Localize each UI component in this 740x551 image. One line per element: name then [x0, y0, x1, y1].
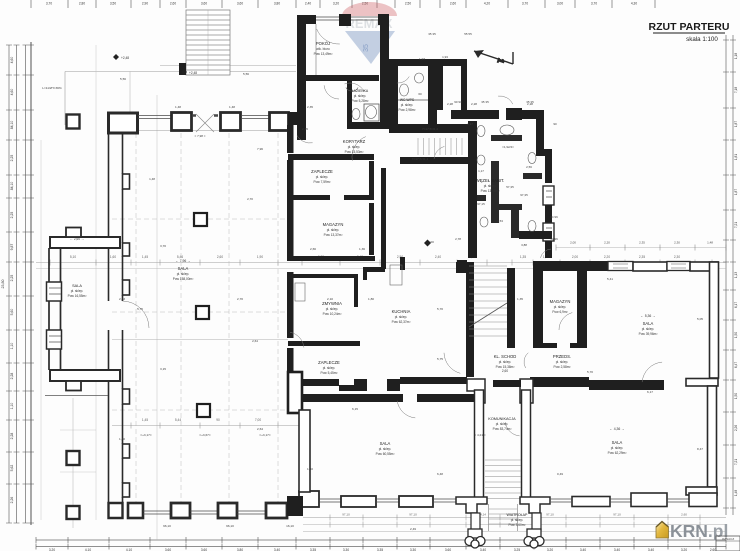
svg-text:7,00: 7,00	[255, 418, 261, 422]
stair treads KL.SCHOD	[469, 265, 507, 267]
svg-text:2,25: 2,25	[10, 212, 14, 219]
svg-text:9,87: 9,87	[10, 244, 14, 251]
svg-text:3,00: 3,00	[557, 2, 563, 6]
svg-text:pl. sklep.: pl. sklep.	[316, 175, 329, 179]
wall south facade left seg2	[399, 496, 433, 507]
svg-text:2,28: 2,28	[527, 102, 533, 106]
svg-text:90: 90	[553, 122, 557, 126]
svg-text:5,70: 5,70	[587, 370, 593, 374]
svg-text:55 55: 55 55	[464, 32, 472, 36]
svg-text:2,60: 2,60	[681, 513, 687, 517]
svg-text:=1,92/4=: =1,92/4=	[502, 145, 514, 149]
svg-text:1,35: 1,35	[520, 255, 526, 259]
pier corridor top-right	[520, 379, 533, 403]
porch tie line 1	[60, 429, 96, 431]
wall kitchen bottom	[400, 377, 467, 384]
svg-text:7,96: 7,96	[257, 147, 263, 151]
svg-text:97,10: 97,10	[409, 513, 417, 517]
svg-text:skala 1:100: skala 1:100	[686, 36, 718, 43]
wall hall bottom-right corner	[287, 496, 303, 516]
svg-text:Pow 13,37m²: Pow 13,37m²	[324, 233, 343, 237]
svg-text:= 7,98 =: = 7,98 =	[194, 134, 205, 138]
svg-text:2,28: 2,28	[471, 102, 477, 106]
svg-text:3,20: 3,20	[333, 2, 339, 6]
stair base block	[179, 63, 186, 75]
svg-text:5,10: 5,10	[70, 255, 76, 259]
svg-text:Pow 10,24m²: Pow 10,24m²	[323, 312, 342, 316]
wall south facade corner	[689, 493, 717, 507]
legend box bottom right	[716, 536, 740, 551]
fixture basin wezel 2	[500, 125, 514, 135]
fixture tub LAZIENKA rect	[364, 104, 379, 121]
wall shaft right	[461, 66, 467, 110]
svg-text:5,56: 5,56	[120, 77, 126, 81]
porch outline top2	[160, 65, 296, 67]
svg-text:2,66: 2,66	[310, 247, 316, 251]
svg-text:1,36: 1,36	[359, 247, 365, 251]
dimension chain bottom outer	[36, 539, 726, 541]
svg-text:35: 35	[363, 44, 370, 52]
wall corridor north near WC	[389, 124, 468, 133]
wall wezel partition 2	[491, 161, 499, 223]
svg-text:+2,48: +2,48	[121, 56, 129, 60]
wall south block top west	[533, 261, 608, 271]
svg-text:5,62: 5,62	[10, 465, 14, 472]
svg-text:pl. sklep.: pl. sklep.	[395, 315, 408, 319]
entry double door north	[196, 114, 214, 132]
svg-text:1,10: 1,10	[10, 403, 14, 410]
svg-text:2,33: 2,33	[119, 297, 125, 301]
entry post east	[532, 513, 541, 530]
svg-text:ZMYWNIA: ZMYWNIA	[322, 301, 342, 306]
svg-text:2,60: 2,60	[502, 369, 508, 373]
wall stairwell notch	[457, 260, 467, 273]
wall block step down	[354, 379, 367, 391]
interior chain ticks	[49, 260, 51, 266]
svg-text:Pow 62,37m²: Pow 62,37m²	[392, 320, 411, 324]
door arc hall-left room	[123, 301, 150, 328]
wall kitchen right	[466, 273, 474, 377]
wall WC right	[428, 59, 437, 133]
svg-text:SALA: SALA	[612, 440, 623, 445]
svg-text:Pow 7,59m²: Pow 7,59m²	[313, 180, 330, 184]
svg-text:3,50: 3,50	[110, 2, 116, 6]
svg-text:3,80: 3,80	[274, 2, 280, 6]
wall sala1 bottom east	[686, 379, 718, 387]
svg-text:2,28: 2,28	[10, 433, 14, 440]
wall zaplecze bottom east	[344, 195, 374, 200]
wall left-sala top	[50, 237, 120, 248]
dimension chain right outer	[725, 35, 727, 515]
svg-text:1,13: 1,13	[734, 272, 738, 278]
door arc kitchen	[444, 353, 460, 374]
wall east seg2	[545, 205, 552, 223]
svg-text:3,70: 3,70	[160, 244, 166, 248]
svg-text:2,35: 2,35	[639, 255, 645, 259]
ornate column east	[524, 529, 544, 548]
dimension chain left mid	[16, 45, 18, 523]
window box west 2	[47, 330, 62, 349]
wall south facade left corner	[299, 491, 319, 507]
top dimension tick row	[30, 0, 32, 8]
wall center vertical kitchen-magazyn	[381, 168, 386, 269]
svg-text:PRZEDS.: PRZEDS.	[553, 354, 571, 359]
window box west 1	[47, 282, 62, 301]
wall kitchen jog west	[363, 267, 385, 272]
dimension chain left boundary	[30, 42, 32, 525]
svg-text:=+3,67=: =+3,67=	[199, 433, 211, 437]
dimension chain bottom inner	[36, 546, 726, 548]
wall east right sala	[710, 262, 719, 378]
svg-text:1,45: 1,45	[142, 255, 148, 259]
svg-text:1,40: 1,40	[307, 467, 313, 471]
svg-text:5,56: 5,56	[243, 72, 249, 76]
svg-text:96,10: 96,10	[163, 524, 171, 528]
interior dimension chain horizontal 2	[36, 268, 726, 270]
wall stair center	[507, 268, 515, 348]
wall hall left lower	[109, 330, 123, 503]
svg-text:7=17,5/31,4: 7=17,5/31,4	[422, 127, 438, 131]
svg-text:pl. sklep.: pl. sklep.	[348, 145, 361, 149]
window POKOJ top	[316, 17, 339, 20]
pier hall corner south	[288, 372, 302, 413]
svg-text:Pow 13,49m²: Pow 13,49m²	[314, 52, 333, 56]
fixture toilet WC	[400, 84, 409, 96]
svg-text:35 35: 35 35	[481, 100, 489, 104]
svg-text:1,48: 1,48	[229, 105, 235, 109]
svg-text:pl. sklep.: pl. sklep.	[496, 422, 509, 426]
svg-text:2,90: 2,90	[142, 2, 148, 6]
svg-text:2,17: 2,17	[467, 122, 473, 126]
door arc korytarz east	[297, 136, 313, 144]
svg-text:2,26: 2,26	[734, 425, 738, 431]
svg-text:=+3,17=: =+3,17=	[140, 433, 152, 437]
pilaster hall 6	[123, 483, 130, 497]
wall wezel jog	[536, 149, 552, 156]
svg-text:1,50: 1,50	[734, 393, 738, 399]
fixture toilet LAZIENKA	[352, 109, 360, 120]
column right top	[633, 262, 667, 271]
wall wezel top east	[522, 110, 543, 119]
window north 1	[138, 116, 171, 119]
svg-text:97,10: 97,10	[546, 513, 554, 517]
wall south facade left seg1	[341, 496, 376, 507]
title underline	[653, 32, 725, 34]
svg-text:ŁAZIENKA: ŁAZIENKA	[352, 89, 369, 93]
svg-text:5,75: 5,75	[437, 357, 443, 361]
pilaster hall 1	[123, 174, 130, 189]
wall magazyn2 bottom east	[570, 343, 587, 348]
svg-text:POKÓJ: POKÓJ	[316, 41, 330, 46]
svg-text:1,10: 1,10	[10, 343, 14, 350]
svg-text:SALA: SALA	[643, 321, 654, 326]
svg-text:pl. sklep.: pl. sklep.	[177, 272, 190, 276]
svg-text:Pow 16,55m²: Pow 16,55m²	[68, 294, 87, 298]
svg-text:Pow 15,53m²: Pow 15,53m²	[345, 150, 364, 154]
door arc korytarz west	[352, 137, 366, 161]
svg-text:1,48: 1,48	[734, 490, 738, 496]
wall corridor right	[522, 390, 531, 498]
svg-text:SALA: SALA	[178, 266, 189, 271]
svg-text:pl. sklep.: pl. sklep.	[327, 228, 340, 232]
svg-text:= 4,21 =: = 4,21 =	[474, 433, 486, 437]
svg-text:L=113/H=36%: L=113/H=36%	[42, 86, 62, 90]
column porch 1	[67, 451, 80, 465]
svg-text:pl. sklep.: pl. sklep.	[379, 447, 392, 451]
wall przeds bottom	[530, 377, 589, 387]
svg-text:2,40: 2,40	[435, 255, 441, 259]
svg-text:Pow 62,29m²: Pow 62,29m²	[608, 451, 627, 455]
porch outline top	[65, 71, 296, 73]
wall kitchen top stub	[400, 257, 405, 270]
svg-text:1,45: 1,45	[142, 418, 148, 422]
corner POKOJ top right	[378, 14, 389, 25]
wall wezel stub	[477, 195, 486, 201]
svg-text:pl. sklep.: pl. sklep.	[401, 103, 414, 107]
column hall south 1	[128, 503, 143, 518]
svg-text:WIATROŁAP: WIATROŁAP	[507, 513, 529, 517]
svg-text:2,10: 2,10	[327, 297, 333, 301]
svg-text:2,28: 2,28	[10, 373, 14, 380]
hall grid dashed lines	[135, 125, 137, 502]
wall wezel left	[468, 121, 477, 258]
wall POKOJ left	[297, 15, 306, 140]
svg-text:SALA: SALA	[72, 284, 82, 288]
wall south facade seg2	[572, 497, 610, 507]
column hall south 2	[171, 503, 190, 518]
window south w3	[433, 499, 456, 502]
wall hall right low2	[287, 348, 294, 374]
svg-text:← 5,36 →: ← 5,36 →	[640, 314, 655, 318]
bottom area dimension chain	[303, 517, 726, 519]
svg-text:3,88: 3,88	[521, 243, 527, 247]
svg-text:2,60: 2,60	[217, 255, 223, 259]
svg-text:6,15: 6,15	[352, 407, 358, 411]
fixture toilet wezel 1	[477, 126, 485, 137]
wall POKOJ right	[380, 15, 389, 129]
svg-text:2,70: 2,70	[247, 197, 253, 201]
svg-text:Pow 6,9m²: Pow 6,9m²	[552, 310, 567, 314]
window box east 1	[543, 186, 554, 205]
dimension chain left outer	[8, 45, 10, 523]
door arc LAZIENKA entry	[324, 85, 339, 99]
window north 3	[241, 116, 269, 119]
svg-text:ZAPLECZE: ZAPLECZE	[318, 360, 340, 365]
svg-text:1,48: 1,48	[707, 241, 713, 245]
window box right top 1	[608, 262, 633, 271]
svg-text:3,70: 3,70	[46, 2, 52, 6]
svg-text:Pow 3,60m²: Pow 3,60m²	[508, 523, 525, 527]
svg-text:pl. sklep.: pl. sklep.	[642, 327, 655, 331]
exterior staircase top	[186, 10, 230, 75]
wall zaplecze2 south east	[387, 379, 400, 391]
svg-text:1,35: 1,35	[517, 297, 523, 301]
svg-text:pl. sklep.: pl. sklep.	[556, 360, 569, 364]
wall shaft left	[437, 66, 443, 110]
svg-text:Pow 158,00m²: Pow 158,00m²	[173, 277, 194, 281]
svg-text:2,20: 2,20	[604, 255, 610, 259]
svg-text:1,18: 1,18	[734, 53, 738, 59]
porch edge line bottom-left	[72, 398, 74, 528]
column wezel top	[506, 108, 522, 120]
hall interior column 3	[197, 404, 210, 417]
door arc sala1 south	[642, 362, 662, 382]
svg-text:1,90: 1,90	[257, 255, 263, 259]
fixture toilet wezel 4	[528, 221, 536, 232]
svg-text:2,00: 2,00	[572, 255, 578, 259]
fixture counter zmywnia	[295, 283, 305, 301]
svg-text:5,41: 5,41	[607, 277, 613, 281]
window south w2	[376, 499, 399, 502]
slope arrow symbol	[474, 50, 513, 65]
svg-text:3,60: 3,60	[201, 2, 207, 6]
svg-text:4,60: 4,60	[10, 57, 14, 64]
svg-text:← 2,60 →: ← 2,60 →	[70, 237, 84, 241]
svg-text:57,35: 57,35	[506, 185, 514, 189]
wall magazyn bottom	[288, 256, 375, 261]
svg-text:1,53: 1,53	[497, 219, 503, 223]
svg-text:pl. sklep.: pl. sklep.	[554, 305, 567, 309]
svg-text:2,64: 2,64	[252, 339, 258, 343]
svg-text:6,17: 6,17	[734, 302, 738, 308]
svg-text:35 35: 35 35	[428, 32, 436, 36]
svg-text:4,60: 4,60	[10, 89, 14, 96]
hall interior chain	[112, 425, 300, 427]
wall wezel bottom	[519, 231, 552, 239]
wall wezel top west	[451, 110, 499, 119]
column hall south 3	[218, 503, 237, 518]
hall interior column 2	[196, 306, 209, 319]
door arc magazyn2	[559, 313, 572, 330]
door arc bottom sala	[397, 401, 415, 418]
wall magazyn2 bottom west	[533, 343, 557, 348]
svg-text:97,10: 97,10	[613, 513, 621, 517]
window hall south 3	[237, 511, 266, 514]
svg-text:+2,48: +2,48	[189, 71, 197, 75]
svg-text:6,17: 6,17	[647, 390, 653, 394]
svg-text:2,80: 2,80	[79, 2, 85, 6]
svg-text:RZUT PARTERU: RZUT PARTERU	[649, 21, 730, 33]
window hall south 1	[143, 511, 171, 514]
svg-text:1,87: 1,87	[734, 189, 738, 195]
wall shaft top	[437, 59, 467, 66]
svg-text:KL. SCHOD: KL. SCHOD	[494, 354, 517, 359]
svg-text:WĘZEŁ SANIT.: WĘZEŁ SANIT.	[476, 178, 505, 183]
svg-text:34 96: 34 96	[550, 237, 558, 241]
svg-text:2,56: 2,56	[526, 165, 532, 169]
svg-text:3,60: 3,60	[237, 2, 243, 6]
svg-text:pl. sklep.: pl. sklep.	[611, 446, 624, 450]
fixture toilet wezel 5	[477, 155, 485, 165]
right chain ticks	[723, 39, 736, 41]
chimney left-sala	[66, 228, 81, 238]
level marker diamond	[424, 240, 431, 247]
svg-text:OZNACZ: OZNACZ	[722, 537, 735, 541]
window south 2	[610, 499, 631, 502]
fixture counter kitchen	[390, 265, 402, 285]
corridor stairs	[485, 459, 521, 461]
pilaster hall 3	[123, 280, 130, 295]
svg-text:6,47: 6,47	[734, 362, 738, 368]
dimension chain right inner	[732, 35, 734, 515]
svg-text:Pow 2,58m²: Pow 2,58m²	[553, 365, 570, 369]
hall interior column 1	[194, 213, 207, 226]
grid line vertical A	[95, 45, 97, 520]
wall band to POKOJ	[288, 112, 306, 125]
wall LAZIENKA left	[347, 79, 352, 127]
svg-text:1,80: 1,80	[368, 297, 374, 301]
svg-text:Pow 13,98m²: Pow 13,98m²	[481, 189, 500, 193]
column porch 2	[67, 506, 80, 519]
wall right top corner	[690, 262, 718, 271]
svg-text:2,40: 2,40	[305, 2, 311, 6]
svg-text:2,30: 2,30	[674, 255, 680, 259]
svg-text:84,10: 84,10	[10, 182, 14, 191]
svg-text:Pow 2,98m²: Pow 2,98m²	[398, 108, 415, 112]
pier corridor top-left	[467, 379, 485, 403]
svg-text:97,10: 97,10	[342, 513, 350, 517]
column hall south 4	[266, 503, 287, 518]
svg-text:34 96: 34 96	[550, 215, 558, 219]
wall magazyn2 right	[577, 271, 587, 346]
porch line	[129, 72, 131, 114]
svg-text:0,49: 0,49	[557, 472, 563, 476]
wall hall left upper	[109, 133, 123, 301]
wall zmywnia top	[288, 274, 358, 278]
window box right top 2	[667, 262, 690, 271]
chain right mid	[556, 247, 726, 249]
wall left extension line	[45, 395, 108, 397]
svg-text:pl. sklep.: pl. sklep.	[499, 360, 512, 364]
svg-text:MAGAZYN: MAGAZYN	[550, 299, 571, 304]
door arc wezel north	[498, 96, 513, 104]
svg-text:1,81: 1,81	[734, 154, 738, 160]
svg-text:wlk. biuro: wlk. biuro	[316, 47, 330, 51]
door arc zmywnia	[290, 332, 304, 347]
hall north inner face	[112, 130, 288, 132]
door arc przedsionek	[524, 353, 528, 368]
svg-text:pl. sklep.: pl. sklep.	[326, 307, 339, 311]
door arc lower block entry	[540, 249, 551, 258]
svg-text:84,10: 84,10	[10, 121, 14, 130]
window hall south 2	[190, 511, 218, 514]
fixture toilet wezel 3	[528, 153, 536, 164]
wall corridor south west	[288, 154, 374, 160]
svg-text:1,50: 1,50	[734, 332, 738, 338]
svg-text:1,93: 1,93	[419, 57, 425, 61]
svg-text:16,10: 16,10	[286, 524, 294, 528]
svg-text:← 4,36 →: ← 4,36 →	[609, 427, 624, 431]
svg-text:pl. sklep.: pl. sklep.	[354, 94, 367, 98]
wall WC left	[389, 66, 398, 133]
wall south facade seg3	[631, 493, 667, 507]
svg-text:90: 90	[216, 418, 220, 422]
svg-text:2,78: 2,78	[455, 237, 461, 241]
column top facade	[339, 14, 351, 26]
svg-text:1,48: 1,48	[149, 177, 155, 181]
svg-text:2,50: 2,50	[405, 2, 411, 6]
porch outline left	[64, 72, 66, 126]
column north 1	[172, 113, 192, 131]
svg-text:WC WPS: WC WPS	[400, 98, 415, 102]
svg-text:2,35: 2,35	[639, 241, 645, 245]
svg-text:1,48: 1,48	[175, 105, 181, 109]
window POKOJ top right	[351, 17, 378, 20]
wall hall right upper	[287, 125, 294, 153]
wall wezel east upper	[536, 110, 544, 156]
svg-text:pl. sklep.: pl. sklep.	[511, 518, 524, 522]
door arc korytarz south	[434, 147, 444, 159]
